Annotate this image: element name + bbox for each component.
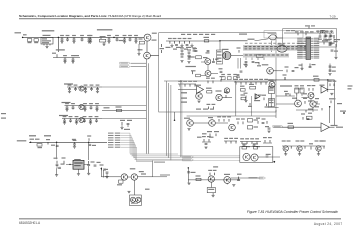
svg-text:6816532H01-A: 6816532H01-A [19, 221, 41, 225]
svg-text:Figure 7-81 HUE4040A Controll: Figure 7-81 HUE4040A Controller Power Co… [247, 210, 338, 214]
svg-text:August 24, 2007: August 24, 2007 [314, 222, 343, 226]
svg-text:Schematics, Component Location: Schematics, Component Location Diagrams,… [19, 14, 162, 18]
svg-text:7-29: 7-29 [329, 14, 335, 18]
